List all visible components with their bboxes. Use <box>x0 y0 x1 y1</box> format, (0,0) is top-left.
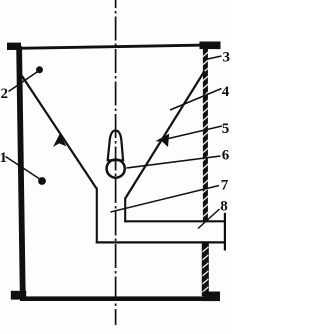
float ball <box>107 160 125 178</box>
outlet pipe bottom line <box>96 241 225 243</box>
flow arrow left <box>53 134 66 148</box>
leader line label 1 <box>6 157 41 180</box>
leader line label 4 <box>170 89 222 111</box>
leader line label 6 <box>127 156 221 168</box>
centerline (vertical dash-dot axis) <box>115 0 117 325</box>
leader line label 3 <box>206 56 222 60</box>
vessel right wall (sectioned, lower part) <box>202 243 209 296</box>
top-left flange cap <box>7 43 21 50</box>
neck left wall <box>96 188 98 244</box>
svg-text:4: 4 <box>222 84 230 100</box>
outlet pipe end flange line <box>224 213 226 251</box>
outlet pipe top line <box>124 220 224 222</box>
leader line label 7 <box>111 186 220 213</box>
svg-text:3: 3 <box>223 50 231 66</box>
vessel left wall <box>16 46 26 299</box>
leader line label 8 <box>198 209 220 229</box>
vessel bottom line <box>20 296 208 301</box>
svg-text:5: 5 <box>222 121 230 137</box>
svg-text:8: 8 <box>220 199 228 215</box>
node dot for label 2 <box>36 66 43 73</box>
flow arrow right <box>155 134 169 147</box>
top-right flange cap <box>200 42 221 50</box>
leader line label 2 <box>9 71 39 92</box>
svg-text:2: 2 <box>1 86 9 102</box>
vessel top line <box>18 44 205 50</box>
svg-text:1: 1 <box>0 150 7 166</box>
cone baffle left side <box>22 76 97 189</box>
node dot for label 1 <box>38 177 46 185</box>
vessel right wall (sectioned, upper part) <box>203 48 209 221</box>
float plummet (teardrop body) <box>108 131 123 161</box>
svg-text:7: 7 <box>221 178 229 194</box>
leader line label 5 (ends at flow arrow right) <box>160 126 222 141</box>
bottom-left flange cap <box>11 291 26 300</box>
svg-text:6: 6 <box>222 148 230 164</box>
neck right wall <box>124 198 126 223</box>
cone baffle right side <box>125 71 204 199</box>
bottom-right flange cap <box>203 292 220 302</box>
